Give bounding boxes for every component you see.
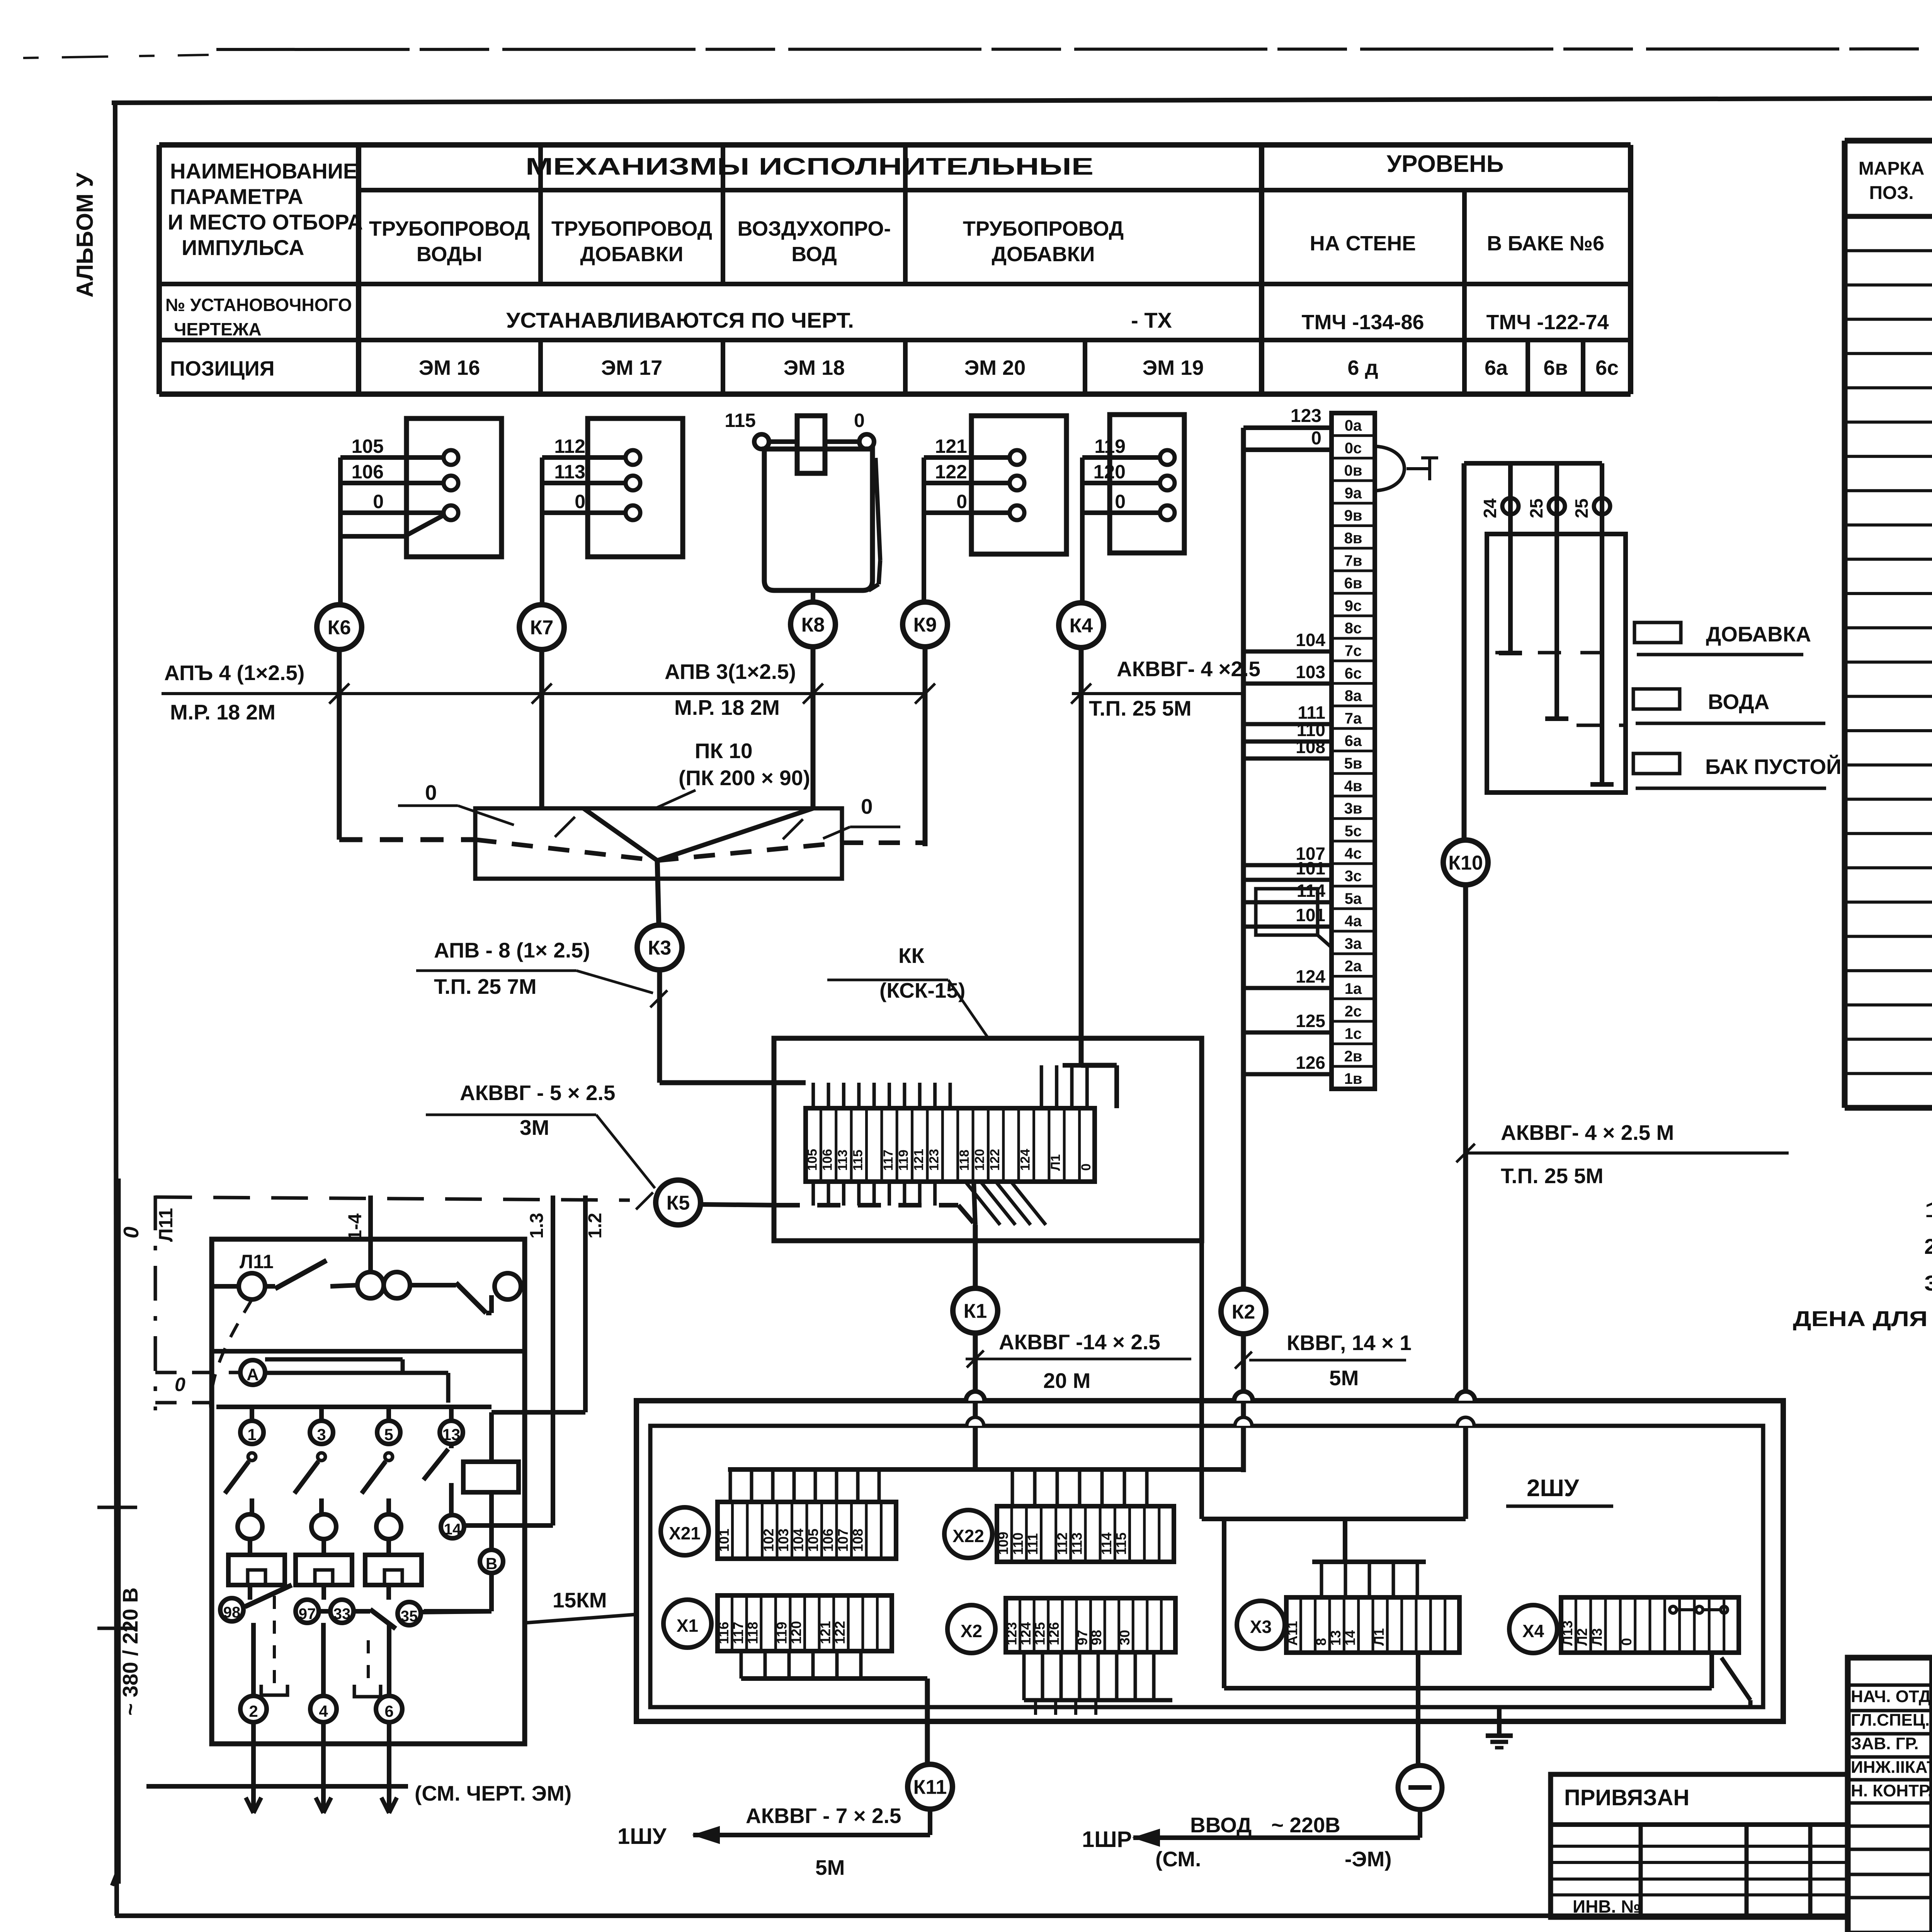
bumps over wires on top lines (966, 1391, 985, 1401)
cable marker К3 (637, 925, 682, 970)
svg-text:ТРУБОПРОВОД: ТРУБОПРОВОД (963, 217, 1124, 240)
svg-text:119: 119 (896, 1150, 911, 1171)
svg-text:ЭМ 19: ЭМ 19 (1143, 356, 1204, 379)
level mark voda (1633, 689, 1680, 709)
svg-text:М.Р. 18 2М: М.Р. 18 2М (170, 700, 276, 724)
svg-text:9в: 9в (1344, 507, 1362, 524)
svg-text:7с: 7с (1345, 642, 1362, 659)
svg-text:118: 118 (745, 1622, 760, 1644)
svg-text:4с: 4с (1345, 845, 1362, 862)
svg-text:123: 123 (1003, 1622, 1019, 1645)
svg-text:2.: 2. (1924, 1234, 1932, 1259)
cable marker К10 (1443, 840, 1488, 885)
cabinet inner box (650, 1426, 1763, 1707)
svg-text:№ УСТАНОВОЧНОГО: № УСТАНОВОЧНОГО (165, 295, 352, 315)
svg-text:0с: 0с (1345, 440, 1362, 457)
svg-text:106: 106 (352, 461, 384, 483)
svg-text:ПОЗИЦИЯ: ПОЗИЦИЯ (170, 357, 275, 380)
svg-text:5с: 5с (1345, 823, 1362, 840)
K1 wire down (973, 1225, 978, 1288)
svg-text:6в: 6в (1344, 575, 1362, 592)
svg-text:В БАКЕ №6: В БАКЕ №6 (1487, 232, 1604, 255)
svg-text:6 д: 6 д (1347, 356, 1378, 379)
minus circle and Vvod arrow (1416, 1653, 1420, 1765)
svg-text:6с: 6с (1595, 356, 1619, 379)
svg-text:0: 0 (373, 491, 384, 512)
svg-text:АЛЬБОМ У: АЛЬБОМ У (72, 172, 98, 298)
svg-text:Л2: Л2 (1574, 1628, 1590, 1646)
K10 internal route to X3 and X4 (1463, 1426, 1468, 1519)
svg-text:2с: 2с (1345, 1003, 1362, 1020)
svg-text:ЗАВ. ГР.: ЗАВ. ГР. (1851, 1734, 1918, 1753)
svg-text:20 М: 20 М (1043, 1369, 1090, 1393)
cable marker К4 (1059, 603, 1104, 648)
svg-text:5М: 5М (815, 1855, 845, 1879)
level mark dobавка (1634, 622, 1681, 643)
svg-text:101: 101 (1296, 858, 1325, 878)
svg-text:0а: 0а (1345, 417, 1362, 434)
svg-text:ВОЗДУХОПРО-: ВОЗДУХОПРО- (738, 217, 891, 240)
svg-text:3М: 3М (520, 1116, 549, 1139)
svg-text:1.3: 1.3 (527, 1213, 547, 1239)
bottom circles 2 4 6 (251, 1623, 256, 1696)
cable marker К6 (317, 605, 362, 650)
svg-text:ДОБАВКА: ДОБАВКА (1706, 622, 1811, 646)
svg-text:122: 122 (988, 1149, 1002, 1171)
svg-text:101: 101 (716, 1529, 732, 1552)
svg-text:Х2: Х2 (961, 1621, 982, 1641)
svg-text:Н. КОНТР.: Н. КОНТР. (1851, 1781, 1932, 1800)
svg-text:АПЪ 4 (1×2.5): АПЪ 4 (1×2.5) (164, 661, 304, 685)
sheet top torn edge line (216, 49, 1932, 49)
svg-text:5в: 5в (1344, 755, 1362, 772)
sensor device EM18 (valve) (764, 449, 872, 590)
svg-text:М.Р. 18 2М: М.Р. 18 2М (674, 696, 780, 719)
vertical taps 1-4 1.3 1.2 (368, 1196, 373, 1272)
electrode 25b (1600, 463, 1604, 784)
svg-text:97: 97 (1074, 1630, 1090, 1645)
left feeder bus (116, 1179, 121, 1884)
svg-text:113: 113 (1069, 1532, 1085, 1555)
svg-text:115: 115 (1113, 1532, 1129, 1555)
svg-text:ПОЗ.: ПОЗ. (1869, 183, 1913, 203)
svg-text:106: 106 (820, 1529, 836, 1552)
svg-text:АПВ 3(1×2.5): АПВ 3(1×2.5) (665, 660, 796, 684)
svg-text:УСТАНАВЛИВАЮТСЯ ПО Ч: УСТАНАВЛИВАЮТСЯ ПО ЧЕРТ. (506, 308, 854, 332)
sensor block 119 (1110, 415, 1184, 553)
cabinet 2SHU outer box (636, 1401, 1783, 1721)
svg-text:1. ПЛАН КАБЕЛЬНЫХ РАЗВО: 1. ПЛАН КАБЕЛЬНЫХ РАЗВОДОК СМ. ЛИСТ 14 (1924, 1197, 1932, 1222)
svg-text:0: 0 (175, 1374, 185, 1395)
svg-text:ЭМ 20: ЭМ 20 (964, 356, 1026, 379)
svg-text:0в: 0в (1344, 462, 1362, 479)
bottom bus and arrows (146, 1784, 408, 1789)
svg-text:6а: 6а (1345, 733, 1362, 750)
svg-text:9с: 9с (1345, 597, 1362, 614)
svg-text:БАК ПУСТОЙ: БАК ПУСТОЙ (1705, 754, 1842, 779)
svg-text:7а: 7а (1345, 710, 1362, 727)
svg-text:0: 0 (1311, 428, 1321, 449)
vertical terminal strip (1332, 413, 1375, 1089)
svg-text:2в: 2в (1344, 1048, 1362, 1065)
sensor block 105 (406, 418, 502, 557)
row1 contacts (212, 1284, 239, 1289)
thermal elements (228, 1555, 285, 1585)
svg-text:Х1: Х1 (677, 1616, 698, 1636)
cable marker К7 (519, 605, 564, 650)
strip X1 (718, 1595, 892, 1651)
svg-text:К7: К7 (530, 617, 554, 639)
cable marker К9 (903, 602, 947, 647)
svg-text:111: 111 (1025, 1533, 1041, 1555)
svg-text:К9: К9 (913, 614, 937, 636)
svg-text:4: 4 (319, 1702, 328, 1720)
svg-text:122: 122 (832, 1621, 848, 1644)
svg-text:1ШУ: 1ШУ (617, 1824, 667, 1849)
electrode 25a (1554, 463, 1559, 719)
svg-text:К5: К5 (667, 1192, 690, 1214)
svg-text:117: 117 (881, 1150, 896, 1171)
svg-text:121: 121 (935, 435, 967, 457)
svg-text:105: 105 (805, 1529, 821, 1552)
svg-text:35: 35 (401, 1608, 418, 1625)
svg-text:ЭМ 16: ЭМ 16 (419, 356, 480, 379)
svg-text:ТРУБОПРОВОД: ТРУБОПРОВОД (369, 217, 530, 240)
strip main feeder (1241, 428, 1246, 1289)
svg-text:0: 0 (1115, 491, 1126, 512)
svg-text:14: 14 (444, 1521, 461, 1538)
trench box PK10 (475, 808, 842, 879)
X1 bottom teeth to K11 (740, 1651, 743, 1679)
svg-text:А: А (247, 1365, 259, 1384)
svg-text:ЭМ 18: ЭМ 18 (784, 356, 845, 379)
svg-text:120: 120 (1094, 461, 1126, 483)
svg-text:ЭМ 17: ЭМ 17 (601, 356, 662, 379)
svg-text:109: 109 (995, 1532, 1011, 1555)
cable marker К2 (1221, 1289, 1266, 1334)
strip X2 (1006, 1598, 1175, 1652)
svg-text:К4: К4 (1070, 615, 1093, 637)
internal bus A (728, 1467, 1243, 1472)
strip left taps (1243, 650, 1332, 654)
svg-text:112: 112 (554, 435, 585, 457)
svg-text:110: 110 (1010, 1532, 1026, 1555)
svg-text:1-4: 1-4 (345, 1213, 366, 1240)
svg-text:103: 103 (1296, 662, 1325, 682)
svg-text:2: 2 (249, 1702, 258, 1720)
K10 wire (1462, 463, 1467, 842)
svg-text:3: 3 (317, 1425, 326, 1444)
sensor block 121 (971, 416, 1066, 554)
svg-text:Т.П. 25 7М: Т.П. 25 7М (434, 975, 537, 998)
svg-text:105: 105 (352, 435, 384, 457)
svg-text:113: 113 (554, 461, 585, 483)
svg-text:123: 123 (1291, 406, 1321, 426)
table: parameter header table (159, 142, 1631, 148)
cable marker К11 (908, 1764, 952, 1809)
svg-text:ВОД: ВОД (791, 243, 837, 266)
svg-text:24: 24 (1480, 498, 1500, 519)
svg-text:АКВВГ - 7 × 2.5: АКВВГ - 7 × 2.5 (746, 1804, 901, 1828)
svg-text:8а: 8а (1345, 687, 1362, 704)
strip X21 (718, 1502, 896, 1559)
svg-text:3. В ГРАФЕ „КОЛИЧЕСТВО”: 3. В ГРАФЕ „КОЛИЧЕСТВО” ЦИФРА НАД ДРОБЬЮ… (1924, 1271, 1932, 1295)
svg-text:ПАРАМЕТРА: ПАРАМЕТРА (170, 184, 303, 209)
svg-text:КК: КК (898, 944, 925, 968)
svg-text:АКВВГ - 5 × 2.5: АКВВГ - 5 × 2.5 (460, 1081, 616, 1105)
svg-text:1.2: 1.2 (585, 1213, 605, 1239)
sensor block 112 (588, 418, 683, 557)
X2 small lower teeth (1034, 1700, 1037, 1715)
svg-text:Х4: Х4 (1522, 1621, 1544, 1641)
svg-text:Х21: Х21 (669, 1523, 701, 1543)
svg-text:25: 25 (1526, 498, 1546, 518)
svg-text:121: 121 (817, 1621, 833, 1644)
wires from sensors to cable markers (338, 536, 343, 605)
svg-text:13: 13 (442, 1425, 461, 1444)
svg-text:К8: К8 (801, 614, 825, 636)
svg-text:108: 108 (1296, 737, 1325, 757)
junction box KK (KSK-15) (774, 1038, 1202, 1241)
svg-text:124: 124 (1296, 966, 1325, 986)
cable marker К5 (656, 1180, 701, 1225)
svg-text:ТМЧ -134-86: ТМЧ -134-86 (1301, 311, 1424, 334)
mech link dash from L11 (211, 1299, 252, 1427)
svg-text:Л1: Л1 (1371, 1628, 1387, 1646)
svg-text:Л11: Л11 (155, 1208, 177, 1242)
svg-text:1: 1 (247, 1425, 256, 1444)
svg-text:97: 97 (299, 1605, 316, 1622)
svg-text:ПРИВЯЗАН: ПРИВЯЗАН (1564, 1785, 1689, 1810)
svg-text:126: 126 (1046, 1622, 1062, 1645)
svg-text:4в: 4в (1344, 777, 1362, 794)
svg-text:114: 114 (1099, 1532, 1114, 1555)
svg-text:АПВ - 8 (1× 2.5): АПВ - 8 (1× 2.5) (434, 938, 590, 962)
svg-text:1с: 1с (1345, 1026, 1362, 1043)
svg-text:13: 13 (1328, 1630, 1344, 1646)
motor contact circles (238, 1514, 262, 1539)
svg-text:АКВВГ -14 × 2.5: АКВВГ -14 × 2.5 (999, 1330, 1160, 1354)
svg-text:И МЕСТО ОТБОРА: И МЕСТО ОТБОРА (168, 210, 363, 234)
svg-text:ГЛ.СПЕЦ.: ГЛ.СПЕЦ. (1851, 1711, 1930, 1730)
svg-text:МАРКА: МАРКА (1859, 158, 1925, 179)
svg-text:- ТХ: - ТХ (1131, 308, 1172, 332)
svg-text:8с: 8с (1345, 620, 1362, 637)
svg-text:К6: К6 (328, 617, 351, 639)
level dashes (1495, 651, 1623, 655)
strip X4 (1561, 1597, 1739, 1653)
svg-text:К10: К10 (1448, 852, 1483, 874)
svg-text:118: 118 (957, 1150, 972, 1171)
svg-text:9а: 9а (1345, 485, 1362, 502)
svg-text:3с: 3с (1345, 867, 1362, 884)
svg-text:3а: 3а (1345, 935, 1362, 952)
svg-text:Л1: Л1 (1048, 1154, 1063, 1171)
cable marker К8 (791, 602, 835, 647)
svg-text:4а: 4а (1345, 913, 1362, 930)
strip jumper loop (1375, 446, 1405, 491)
svg-text:0: 0 (425, 781, 437, 804)
frame bottom line (115, 1913, 1848, 1918)
svg-text:102: 102 (760, 1529, 776, 1552)
svg-text:0: 0 (956, 491, 967, 512)
svg-text:НАЧ. ОТД.: НАЧ. ОТД. (1851, 1687, 1932, 1706)
svg-text:120: 120 (788, 1621, 804, 1644)
svg-text:АКВВГ- 4 × 2.5 М: АКВВГ- 4 × 2.5 М (1501, 1121, 1674, 1145)
start contacts 1 3 5 13 (250, 1407, 254, 1421)
svg-text:0: 0 (861, 794, 873, 818)
X4 link dots (1670, 1606, 1677, 1613)
svg-text:8в: 8в (1344, 530, 1362, 547)
svg-text:5а: 5а (1345, 890, 1362, 907)
svg-text:0: 0 (1079, 1163, 1094, 1171)
KK terminal strip (806, 1108, 1095, 1182)
svg-text:0: 0 (575, 491, 585, 512)
frame left line (115, 103, 117, 1916)
table: parts list (1842, 141, 1848, 1108)
svg-text:Т.П. 25 5М: Т.П. 25 5М (1089, 696, 1192, 720)
svg-text:124: 124 (1018, 1149, 1033, 1171)
svg-text:2ШУ: 2ШУ (1527, 1475, 1580, 1502)
dash-dot cabinet boundary (154, 1196, 157, 1410)
ground symbol (1497, 1707, 1502, 1736)
svg-text:МЕХАНИЗМЫ ИСПОЛНИТЕЛЬНЫЕ: МЕХАНИЗМЫ ИСПОЛНИТЕЛЬНЫЕ (526, 153, 1094, 180)
svg-text:116: 116 (716, 1622, 731, 1644)
strip X3 (1286, 1597, 1459, 1653)
svg-text:ИМПУЛЬСА: ИМПУЛЬСА (182, 235, 304, 260)
svg-text:119: 119 (774, 1622, 790, 1644)
svg-text:ВОДЫ: ВОДЫ (417, 243, 482, 266)
svg-text:(КСК-15): (КСК-15) (879, 978, 965, 1002)
svg-text:УРОВЕНЬ: УРОВЕНЬ (1387, 151, 1504, 177)
svg-text:НАИМЕНОВАНИЕ: НАИМЕНОВАНИЕ (170, 159, 357, 183)
svg-text:121: 121 (912, 1149, 926, 1171)
frame top line (112, 97, 1932, 103)
svg-text:ТРУБОПРОВОД: ТРУБОПРОВОД (551, 217, 712, 240)
svg-text:125: 125 (1296, 1011, 1325, 1031)
svg-text:1а: 1а (1345, 980, 1362, 997)
svg-text:120: 120 (972, 1149, 987, 1171)
svg-text:33: 33 (333, 1605, 351, 1622)
svg-text:Л3: Л3 (1589, 1628, 1605, 1646)
svg-text:5М: 5М (1329, 1366, 1359, 1390)
svg-text:6: 6 (384, 1702, 393, 1720)
svg-text:123: 123 (927, 1149, 941, 1171)
svg-text:ДОБАВКИ: ДОБАВКИ (580, 243, 684, 266)
dashed mech links (273, 1596, 276, 1685)
svg-text:ИНЖ.IIКАТ: ИНЖ.IIКАТ (1851, 1758, 1932, 1777)
svg-text:ЧЕРТЕЖА: ЧЕРТЕЖА (174, 319, 262, 339)
svg-text:ДОБАВКИ: ДОБАВКИ (992, 243, 1095, 266)
cable line AKVVG-4x2.5 (1072, 692, 1242, 695)
svg-text:5: 5 (384, 1425, 393, 1444)
node 0 stem to K3 (657, 861, 659, 925)
svg-text:0: 0 (854, 410, 865, 431)
KK teeth bottom (811, 1182, 815, 1206)
level mark bak pustoy (1633, 753, 1680, 774)
svg-text:103: 103 (776, 1529, 791, 1552)
svg-text:(ПК 200 × 90): (ПК 200 × 90) (679, 766, 810, 790)
svg-text:ВВОД: ВВОД (1190, 1813, 1252, 1837)
svg-text:7в: 7в (1344, 552, 1362, 569)
svg-text:2а: 2а (1345, 958, 1362, 975)
privyazan box (1551, 1774, 1848, 1917)
svg-text:98: 98 (1088, 1630, 1104, 1645)
svg-text:В: В (486, 1554, 497, 1573)
svg-text:КВВГ, 14 × 1: КВВГ, 14 × 1 (1287, 1331, 1412, 1355)
relay A circle (240, 1360, 265, 1385)
svg-text:~ 380 / 220 В: ~ 380 / 220 В (118, 1587, 142, 1716)
title block (1848, 1658, 1932, 1932)
coil line (489, 1412, 494, 1462)
svg-text:122: 122 (935, 461, 967, 483)
svg-text:98: 98 (223, 1604, 241, 1621)
svg-text:6в: 6в (1543, 356, 1568, 379)
svg-text:ТМЧ -122-74: ТМЧ -122-74 (1486, 311, 1609, 334)
svg-text:30: 30 (1117, 1630, 1133, 1645)
svg-text:106: 106 (820, 1149, 835, 1171)
svg-text:25: 25 (1571, 498, 1592, 518)
svg-text:ПК 10: ПК 10 (695, 739, 753, 763)
svg-text:~ 220В: ~ 220В (1271, 1813, 1340, 1837)
svg-text:(СМ. ЧЕРТ. ЭМ): (СМ. ЧЕРТ. ЭМ) (415, 1781, 571, 1805)
svg-text:114: 114 (1297, 881, 1326, 901)
svg-text:К1: К1 (964, 1300, 987, 1323)
svg-text:Х22: Х22 (952, 1526, 984, 1546)
svg-text:117: 117 (730, 1622, 746, 1644)
svg-text:Л11: Л11 (240, 1251, 274, 1272)
svg-text:115: 115 (850, 1150, 865, 1171)
svg-text:(СМ.: (СМ. (1155, 1847, 1201, 1871)
svg-text:104: 104 (1296, 630, 1325, 650)
svg-text:АКВВГ- 4 ×2.5: АКВВГ- 4 ×2.5 (1117, 657, 1260, 681)
svg-text:101: 101 (1296, 905, 1325, 925)
svg-text:1ШР: 1ШР (1082, 1827, 1132, 1852)
svg-text:ВОДА: ВОДА (1708, 690, 1769, 714)
svg-text:112: 112 (1054, 1532, 1070, 1555)
KK box wire down into cabinet (1199, 1241, 1204, 1519)
svg-text:107: 107 (835, 1529, 851, 1552)
svg-text:3в: 3в (1344, 800, 1362, 817)
svg-text:126: 126 (1296, 1053, 1325, 1073)
feed line to contact row (155, 1401, 224, 1405)
svg-text:8: 8 (1313, 1638, 1329, 1646)
svg-text:113: 113 (835, 1150, 850, 1171)
svg-text:ДЕНА ДЛЯ БАКА №6 , ПОД: ДЕНА ДЛЯ БАКА №6 , ПОД ДРОБЬЮ - ДЛЯ БАКО… (1793, 1306, 1932, 1331)
svg-text:15КМ: 15КМ (553, 1588, 607, 1612)
svg-text:К2: К2 (1232, 1301, 1255, 1323)
svg-text:104: 104 (790, 1529, 806, 1552)
svg-text:108: 108 (850, 1529, 866, 1552)
ladder enclosure box (212, 1239, 525, 1744)
svg-text:115: 115 (724, 410, 756, 431)
tank level box (1487, 534, 1626, 793)
svg-text:К3: К3 (648, 937, 672, 959)
svg-text:119: 119 (1094, 435, 1126, 457)
svg-text:105: 105 (805, 1149, 820, 1171)
svg-text:НА СТЕНЕ: НА СТЕНЕ (1310, 232, 1416, 255)
wires below markers (337, 650, 342, 840)
aux contact circles 98 97 33 35 (220, 1598, 243, 1621)
cable marker К1 (953, 1288, 998, 1333)
svg-text:-ЭМ): -ЭМ) (1345, 1847, 1392, 1871)
svg-text:6с: 6с (1345, 665, 1362, 682)
box around taps 114/101 (1256, 889, 1318, 935)
svg-text:1в: 1в (1344, 1070, 1362, 1087)
svg-text:14: 14 (1342, 1630, 1358, 1646)
K5 wire (155, 1197, 630, 1200)
svg-text:0: 0 (119, 1226, 143, 1238)
